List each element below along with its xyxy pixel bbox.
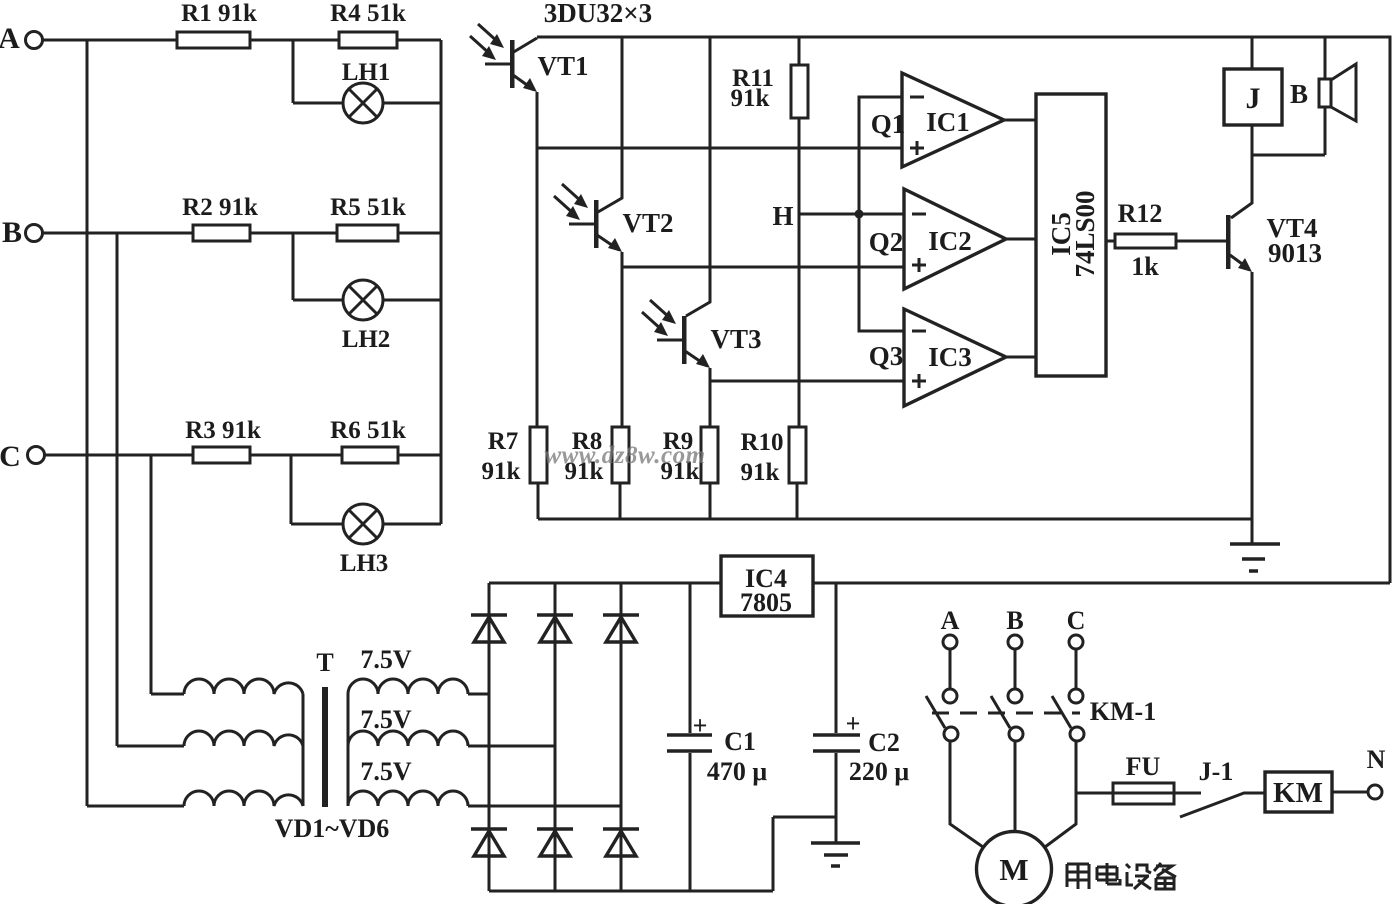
svg-text:R3 91k: R3 91k: [185, 417, 261, 444]
svg-text:A: A: [0, 22, 20, 55]
svg-text:91k: 91k: [731, 85, 770, 112]
svg-text:LH3: LH3: [340, 550, 389, 577]
svg-text:+: +: [693, 711, 708, 740]
svg-text:R10: R10: [740, 429, 783, 456]
svg-text:T: T: [316, 648, 333, 677]
svg-text:KM: KM: [1273, 777, 1323, 809]
svg-text:B: B: [2, 216, 22, 249]
svg-text:7.5V: 7.5V: [360, 705, 412, 734]
svg-text:7805: 7805: [740, 588, 792, 617]
svg-text:VT3: VT3: [710, 324, 761, 354]
svg-text:J: J: [1246, 82, 1261, 115]
svg-text:H: H: [772, 201, 793, 231]
svg-text:74LS00: 74LS00: [1070, 190, 1100, 277]
svg-text:VD1~VD6: VD1~VD6: [275, 814, 390, 843]
svg-text:9013: 9013: [1268, 238, 1322, 268]
svg-text:KM-1: KM-1: [1090, 697, 1156, 726]
svg-text:7.5V: 7.5V: [360, 645, 412, 674]
svg-text:R2 91k: R2 91k: [182, 194, 258, 221]
svg-text:FU: FU: [1126, 752, 1161, 781]
svg-text:C2: C2: [868, 728, 900, 757]
svg-text:IC3: IC3: [928, 342, 972, 372]
svg-text:Q1: Q1: [871, 109, 906, 139]
svg-text:Q2: Q2: [869, 227, 904, 257]
svg-text:R1 91k: R1 91k: [181, 0, 257, 27]
svg-text:VT1: VT1: [537, 51, 588, 81]
svg-text:Q3: Q3: [869, 341, 904, 371]
svg-text:IC2: IC2: [928, 226, 972, 256]
svg-text:www.dz8w.com: www.dz8w.com: [544, 442, 705, 469]
svg-text:+: +: [846, 709, 861, 738]
svg-text:R6 51k: R6 51k: [330, 417, 406, 444]
svg-text:B: B: [1290, 79, 1308, 109]
svg-text:C1: C1: [724, 727, 756, 756]
svg-text:3DU32×3: 3DU32×3: [544, 0, 652, 28]
svg-text:C: C: [1067, 606, 1086, 635]
svg-text:IC1: IC1: [926, 107, 970, 137]
svg-text:N: N: [1367, 745, 1386, 774]
svg-text:R12: R12: [1118, 199, 1163, 228]
svg-text:C: C: [0, 440, 21, 473]
svg-text:A: A: [941, 606, 960, 635]
svg-text:220 μ: 220 μ: [849, 757, 910, 786]
svg-text:1k: 1k: [1131, 252, 1159, 281]
svg-text:M: M: [999, 852, 1028, 887]
svg-text:J-1: J-1: [1199, 757, 1234, 786]
svg-text:R5 51k: R5 51k: [330, 194, 406, 221]
svg-text:7.5V: 7.5V: [360, 757, 412, 786]
svg-text:R7: R7: [488, 428, 519, 455]
svg-text:91k: 91k: [741, 459, 780, 486]
svg-text:470 μ: 470 μ: [707, 757, 768, 786]
svg-text:91k: 91k: [482, 458, 521, 485]
svg-text:B: B: [1006, 606, 1023, 635]
svg-text:LH1: LH1: [342, 59, 391, 86]
svg-text:VT2: VT2: [622, 208, 673, 238]
svg-text:R4 51k: R4 51k: [330, 0, 406, 27]
svg-text:LH2: LH2: [342, 326, 391, 353]
